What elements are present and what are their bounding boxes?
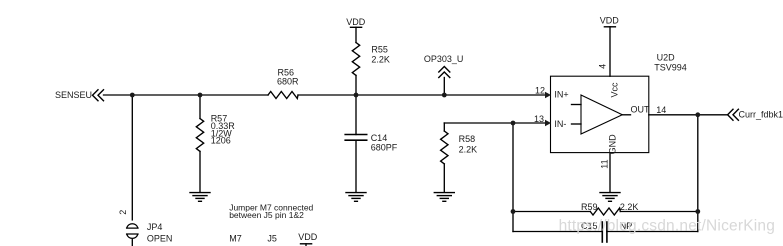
svg-text:C14: C14 [371, 133, 388, 143]
svg-text:J5: J5 [267, 233, 277, 243]
capacitor C15 [602, 222, 607, 242]
capacitor C14 [345, 135, 367, 141]
svg-text:Curr_fdbk1: Curr_fdbk1 [739, 110, 783, 120]
wire C15 row right [607, 231, 698, 233]
svg-text:11: 11 [600, 159, 610, 168]
wire JP4 drop [131, 95, 133, 220]
junction OUT feedback [695, 112, 700, 117]
op-amp U2D box [551, 76, 649, 152]
wire VDD to R55 [355, 27, 357, 42]
wire R58 to ground [443, 164, 445, 192]
wire R59 row right [620, 211, 698, 213]
port OP303_U chevron [439, 67, 450, 78]
junction R59 left [511, 209, 516, 214]
wire VDD bottom down [305, 244, 307, 246]
power VDD bottom bar [301, 243, 312, 245]
svg-text:2.2K: 2.2K [620, 202, 639, 212]
wire feedback right vertical [697, 115, 699, 232]
svg-text:R58: R58 [459, 134, 476, 144]
svg-text:680R: 680R [277, 76, 299, 86]
port SENSEU chevron [93, 90, 104, 101]
wire pin 4 [609, 27, 611, 76]
ground R57 [190, 193, 210, 202]
op-amp input stub - [572, 123, 582, 125]
wire R57 drop [199, 95, 201, 119]
svg-text:IN+: IN+ [554, 90, 568, 100]
ground U2D pin 11 [600, 193, 620, 202]
wire pin 11 to ground [609, 153, 611, 193]
svg-text:OP303_U: OP303_U [424, 54, 464, 64]
wire IN- net [444, 122, 546, 124]
svg-text:14: 14 [656, 105, 666, 115]
svg-text:2.2K: 2.2K [459, 145, 478, 155]
op-amp output stub [622, 114, 630, 116]
port Curr_fdbk1 chevron [728, 109, 739, 120]
svg-text:M7: M7 [229, 233, 242, 243]
wire bus to C14 [355, 95, 357, 135]
svg-text:2.2K: 2.2K [371, 55, 390, 65]
svg-text:4: 4 [598, 64, 608, 69]
power VDD left bar [351, 26, 362, 28]
ground C14 [346, 193, 366, 202]
arrow pin 13 [545, 120, 551, 126]
wire C15 row left [513, 231, 602, 233]
svg-text:between J5 pin 1&2: between J5 pin 1&2 [229, 210, 304, 220]
junction bus R57 [198, 93, 203, 98]
wire OP303_U to bus [443, 78, 445, 96]
svg-text:2: 2 [118, 210, 128, 215]
svg-text:1206: 1206 [211, 136, 231, 146]
svg-text:SENSEU: SENSEU [55, 90, 92, 100]
resistor R56 [268, 92, 298, 99]
svg-text:OPEN: OPEN [147, 234, 173, 244]
op-amp triangle [581, 95, 622, 134]
junction IN- feedback [511, 121, 516, 126]
junction bus OP303_U [442, 93, 447, 98]
wire R59 row left [513, 211, 590, 213]
wire JP4 pin1 down [131, 240, 133, 246]
svg-text:JP4: JP4 [147, 222, 163, 232]
power VDD right bar [604, 26, 615, 28]
resistor R57 [196, 119, 203, 152]
svg-text:13: 13 [534, 114, 544, 124]
svg-text:680PF: 680PF [371, 143, 398, 153]
arrow pin 12 [545, 92, 551, 98]
wire IN- corner to R58 [443, 123, 445, 131]
svg-text:OUT: OUT [631, 104, 651, 114]
svg-text:https://blog.csdn.net/NicerKin: https://blog.csdn.net/NicerKing [559, 218, 775, 235]
wire R55 to bus [355, 75, 357, 95]
junction node A [354, 93, 359, 98]
svg-text:IN-: IN- [554, 119, 566, 129]
svg-text:U2D: U2D [657, 52, 676, 62]
svg-text:VDD: VDD [600, 16, 620, 26]
svg-text:VDD: VDD [298, 232, 318, 242]
wire main bus [104, 94, 269, 96]
wire C14 to ground [355, 140, 357, 192]
svg-text:R55: R55 [371, 45, 388, 55]
svg-text:R59: R59 [581, 202, 598, 212]
op-amp input stub + [572, 104, 582, 106]
wire OUT net [649, 114, 728, 116]
svg-text:TSV994: TSV994 [654, 63, 687, 73]
svg-text:12: 12 [535, 85, 545, 95]
ground R58 [434, 193, 454, 202]
svg-text:GND: GND [608, 134, 618, 155]
connector JP4 pin 2 socket [127, 224, 138, 228]
connector JP4 pin 1 socket [127, 234, 138, 238]
wire R57 to ground [199, 151, 201, 192]
resistor R59 [590, 208, 620, 215]
junction bus JP4 [130, 93, 135, 98]
wire bus right of R56 [298, 94, 546, 96]
svg-text:VDD: VDD [346, 17, 366, 27]
junction R59 right [695, 209, 700, 214]
svg-text:Vcc: Vcc [610, 82, 620, 98]
resistor R55 [352, 43, 359, 76]
resistor R58 [441, 131, 448, 164]
wire feedback left vertical [512, 123, 514, 232]
